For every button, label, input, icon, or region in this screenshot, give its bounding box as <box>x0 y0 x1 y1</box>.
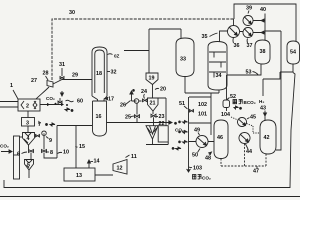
flue gas inlet wires <box>0 102 18 108</box>
svg-text:45: 45 <box>250 115 256 121</box>
wire column top to riser <box>124 29 149 73</box>
arrow near 57 corner <box>46 123 55 126</box>
wire 34 top to blower <box>220 31 228 42</box>
valve 6 <box>29 145 34 153</box>
svg-text:23: 23 <box>159 114 165 120</box>
svg-text:6: 6 <box>17 152 20 158</box>
boiler 13 <box>64 168 95 181</box>
svg-text:52: 52 <box>230 94 236 100</box>
svg-text:CO₂: CO₂ <box>202 176 211 181</box>
svg-text:12: 12 <box>117 166 123 172</box>
valve 31 <box>60 68 64 79</box>
wire 13 to 12 <box>95 174 113 176</box>
drum 52 <box>223 100 230 108</box>
wire under 22 <box>146 142 168 145</box>
svg-text:9: 9 <box>49 138 52 144</box>
wire 15 from column to 13 <box>57 126 92 169</box>
svg-text:37: 37 <box>247 43 253 49</box>
valve 23 <box>151 114 156 117</box>
dashed bottoms 47 <box>221 144 266 167</box>
svg-text:32: 32 <box>111 70 117 76</box>
svg-text:18: 18 <box>96 71 102 77</box>
arrow feed at 148 <box>172 147 181 150</box>
purge CO2 glyph text <box>193 175 202 180</box>
wire 33 bottom header <box>185 77 219 94</box>
svg-text:46: 46 <box>217 135 223 141</box>
pump 49 <box>196 136 208 148</box>
wires pumps to line 40 <box>240 19 266 34</box>
wire line 40 <box>265 14 281 41</box>
wire burner to exchanger <box>36 87 49 99</box>
svg-text:20: 20 <box>160 87 166 93</box>
wire 6 to 5 <box>29 153 31 179</box>
vessel 22 box <box>158 126 168 142</box>
svg-text:31: 31 <box>59 62 65 68</box>
svg-text:35: 35 <box>202 34 208 40</box>
column 16 lower shell <box>93 101 107 136</box>
cyclone 5 <box>25 160 34 171</box>
wire 21 to valve 23 <box>152 111 154 114</box>
valve 8 <box>42 137 47 153</box>
svg-text:1: 1 <box>10 83 13 89</box>
right feed wire to 42 <box>276 31 281 150</box>
svg-text:11: 11 <box>131 154 137 160</box>
svg-text:54: 54 <box>290 50 296 56</box>
svg-text:8: 8 <box>50 150 53 156</box>
svg-text:17: 17 <box>108 97 114 103</box>
line 102 <box>189 96 211 98</box>
valve 25 drop wire <box>136 104 138 115</box>
svg-text:21: 21 <box>150 101 156 107</box>
svg-text:42: 42 <box>264 135 270 141</box>
down arrow vent <box>61 91 64 96</box>
valve 9 group <box>36 135 40 138</box>
svg-text:101: 101 <box>198 112 207 118</box>
svg-text:38: 38 <box>260 49 266 55</box>
feed arrows into 103 <box>179 121 188 124</box>
gasifier column 18 upper shell <box>92 47 107 96</box>
svg-text:30: 30 <box>69 10 75 16</box>
wire 36 riser <box>233 19 235 26</box>
wire 8 down to line 10 <box>44 153 57 159</box>
svg-text:28: 28 <box>43 71 49 77</box>
svg-text:48: 48 <box>205 156 211 162</box>
svg-text:34: 34 <box>216 73 222 79</box>
column waist neck <box>92 96 107 101</box>
svg-text:BCO₂: BCO₂ <box>244 100 256 105</box>
pump 37 <box>243 28 253 38</box>
wire 29 into column <box>53 80 92 85</box>
page bottom rule <box>0 196 300 198</box>
svg-text:50: 50 <box>192 153 198 159</box>
duct from exchanger 2 to scrubber 3 <box>27 111 29 118</box>
dotted 104 to pump 45 <box>231 117 238 120</box>
svg-text:27: 27 <box>31 78 37 84</box>
wire 34 bottom <box>218 90 220 93</box>
standpipe <box>14 136 20 179</box>
cyclone 4 <box>23 133 35 146</box>
purge line 103 <box>188 97 190 167</box>
burner 28 <box>47 81 53 88</box>
wire box right of hopper 21 <box>158 98 166 126</box>
svg-text:0Z: 0Z <box>114 54 120 59</box>
blower 36 <box>228 26 240 38</box>
svg-text:104: 104 <box>221 112 230 118</box>
column 18 inner wall <box>95 50 105 93</box>
regenerator 34 <box>208 42 227 91</box>
svg-text:26: 26 <box>120 103 126 109</box>
svg-text:22: 22 <box>159 121 165 127</box>
wire 3 to cyclone 4 <box>27 126 29 133</box>
vent 26 arrow <box>130 90 135 102</box>
vessel 33 <box>176 38 194 77</box>
svg-text:47: 47 <box>253 169 259 175</box>
pump 39 <box>243 16 253 26</box>
svg-text:36: 36 <box>234 43 240 49</box>
svg-text:60: 60 <box>77 99 83 105</box>
wire to vessel 33 <box>149 29 181 38</box>
leader for 1 <box>13 90 18 99</box>
arrow mark below <box>65 108 73 112</box>
wire right of 101 box <box>210 93 212 135</box>
valve 60 <box>58 98 62 104</box>
svg-text:13: 13 <box>76 173 82 179</box>
svg-text:5: 5 <box>27 163 30 169</box>
valve 24 <box>143 99 148 102</box>
actuator circle <box>134 99 139 104</box>
wire 30 riser to top-right <box>234 4 296 41</box>
svg-text:4: 4 <box>27 136 30 142</box>
absorber 38 <box>255 40 270 64</box>
svg-text:10: 10 <box>63 150 69 156</box>
frame right and bottom border <box>4 73 295 188</box>
wire 53 from 38 to drum 52 <box>227 64 262 100</box>
svg-text:29: 29 <box>72 73 78 79</box>
pump 45 <box>238 118 247 127</box>
lock hopper 22 funnel <box>146 126 158 145</box>
svg-text:15: 15 <box>79 144 85 150</box>
recycle CO2 glyph text <box>233 100 242 104</box>
wire 52 drop <box>226 108 228 112</box>
svg-text:16: 16 <box>96 114 102 120</box>
arrow CO2 header <box>169 121 177 124</box>
svg-text:102: 102 <box>198 102 207 108</box>
scrubber 3 <box>22 118 35 127</box>
arrow on CO2 wire <box>47 103 64 106</box>
arrow 103 down <box>187 167 190 172</box>
trays in 34 <box>209 52 226 78</box>
wire 43 into vessel 42 <box>264 111 267 121</box>
wire from 54 bottom <box>263 64 293 96</box>
svg-text:3: 3 <box>26 121 29 127</box>
svg-text:19: 19 <box>149 76 155 82</box>
CO2 header wire from column 16 <box>107 117 170 126</box>
methanator 46 <box>214 120 228 159</box>
line 101 <box>189 122 211 124</box>
svg-text:33: 33 <box>180 57 186 63</box>
svg-text:40: 40 <box>260 7 266 13</box>
wire vent header <box>132 100 149 102</box>
arrow under glyphs <box>234 106 242 109</box>
valve 25 <box>135 115 140 118</box>
stack 14 <box>88 160 91 168</box>
reactor 42 <box>260 120 276 154</box>
wire CO2 offgas from 2 <box>40 104 62 106</box>
hopper 19 <box>146 73 158 85</box>
svg-text:25: 25 <box>125 115 131 121</box>
svg-text:103: 103 <box>193 166 202 172</box>
svg-text:2: 2 <box>26 104 29 110</box>
svg-text:49: 49 <box>194 128 200 134</box>
svg-text:14: 14 <box>94 159 100 165</box>
pump 44 <box>239 133 250 144</box>
vessel 54 <box>287 41 300 64</box>
wire line 30 top header <box>52 19 234 80</box>
svg-text:CO₂: CO₂ <box>0 144 9 149</box>
valve 51 <box>190 110 194 113</box>
wires pump 49 <box>189 141 215 143</box>
hopper 21 <box>148 98 159 111</box>
dotted 45 to 42 <box>247 124 261 134</box>
svg-text:53: 53 <box>246 70 252 76</box>
svg-text:CO₂: CO₂ <box>46 96 55 101</box>
svg-text:44: 44 <box>246 149 252 155</box>
wire cyclone to standpipe <box>20 136 23 138</box>
turbine 12 <box>113 160 127 175</box>
heat exchanger 2 <box>18 99 40 111</box>
svg-text:H₂: H₂ <box>259 99 264 104</box>
wire 20 <box>152 85 154 99</box>
